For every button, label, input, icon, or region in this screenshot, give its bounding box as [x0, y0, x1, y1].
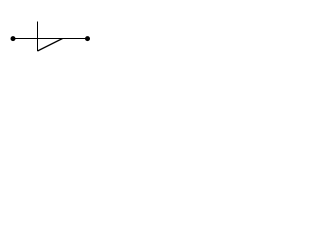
diode D1 bar (vertical plate line crossing the wire) — [37, 22, 39, 52]
node B (right terminal junction dot) — [85, 36, 90, 41]
node A (left terminal junction dot) — [11, 36, 16, 41]
wire (right segment: apex to node B) — [63, 38, 88, 40]
diode D1 triangle hypotenuse (diagonal edge from bar bottom to apex on wire) — [38, 39, 63, 52]
wire (left segment: node A to cathode bar) — [13, 38, 38, 40]
wire (middle segment along diode top edge: bar to apex) — [38, 38, 63, 40]
